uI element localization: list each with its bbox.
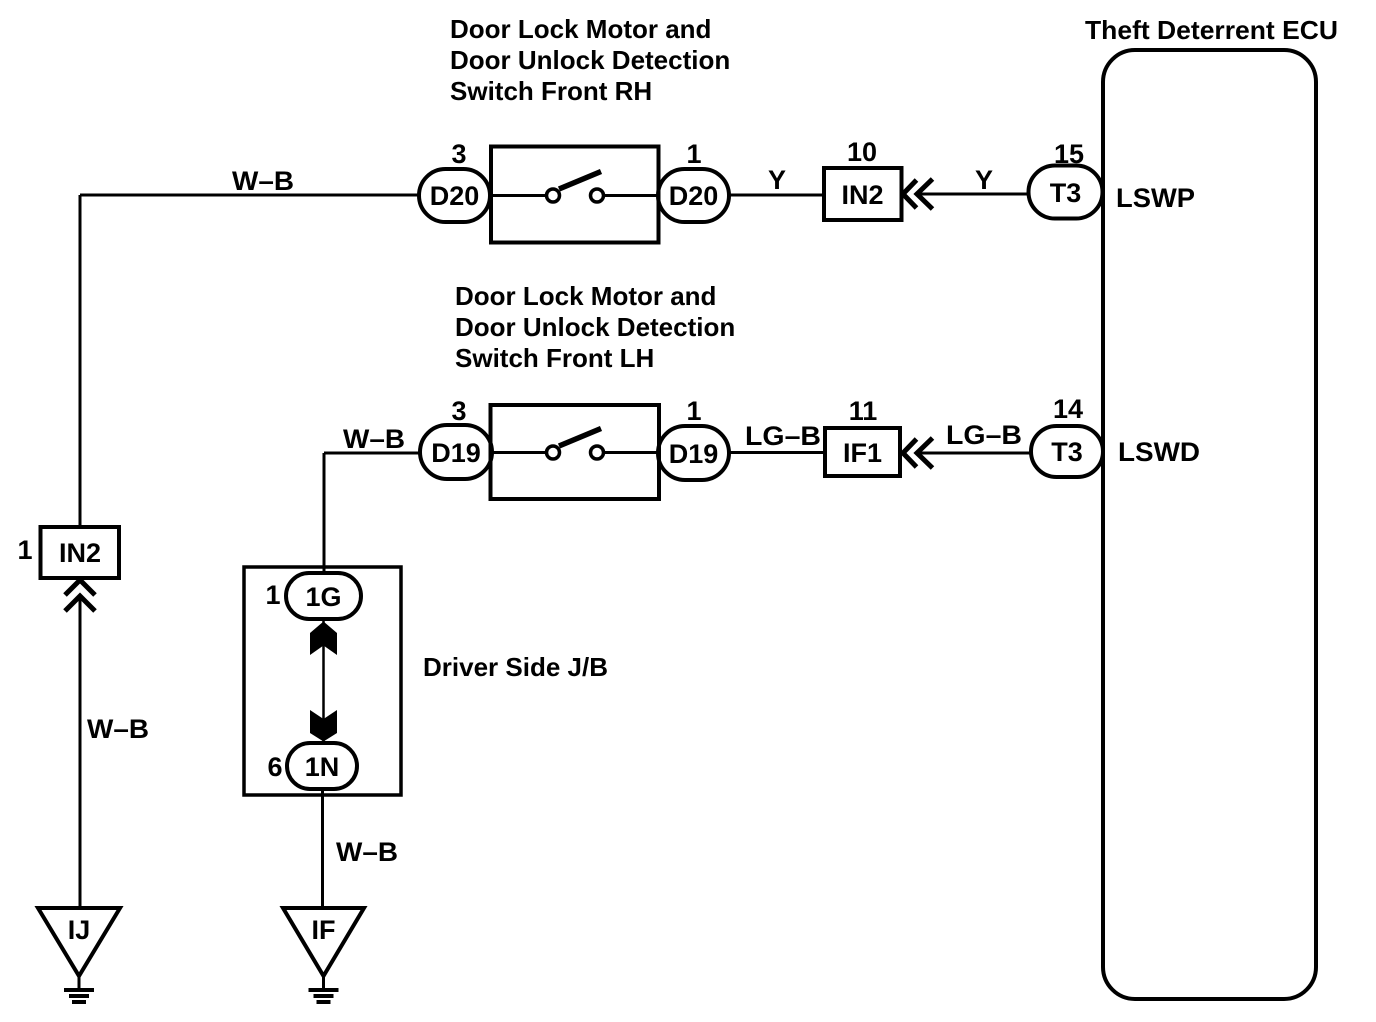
- wire W-B to IF ground: [321, 789, 324, 908]
- switch S1 contacts: [491, 172, 659, 203]
- label LSWD: [1118, 437, 1200, 467]
- svg-text:1: 1: [686, 139, 701, 169]
- svg-text:1: 1: [265, 580, 280, 610]
- label W-B row 2: [343, 424, 405, 454]
- connector D19 pin 3: [420, 425, 492, 479]
- svg-text:T3: T3: [1050, 178, 1082, 208]
- svg-text:3: 3: [451, 396, 466, 426]
- svg-text:IF1: IF1: [843, 438, 882, 468]
- svg-text:IJ: IJ: [68, 915, 91, 945]
- svg-text:IF: IF: [312, 915, 336, 945]
- wire Y from D20 to IN2: [729, 194, 824, 197]
- ground symbol under IF: [309, 976, 339, 1002]
- arrow chevrons into IF1 pin 11: [903, 438, 933, 468]
- pin 1 label (IN2 left): [17, 535, 32, 565]
- pin 3 label (D20 left): [451, 139, 466, 169]
- wire W-B row 2: [324, 453, 420, 573]
- svg-text:Door Lock Motor and: Door Lock Motor and: [455, 281, 716, 311]
- svg-text:1N: 1N: [305, 752, 340, 782]
- svg-text:D20: D20: [669, 181, 719, 211]
- switch S1 box Front RH: [491, 147, 659, 243]
- connector D20 pin 3: [419, 169, 490, 222]
- svg-text:Driver Side J/B: Driver Side J/B: [423, 652, 608, 682]
- Driver Side J/B box: [244, 567, 401, 795]
- pin 6 label (1N): [267, 752, 282, 782]
- svg-text:W–B: W–B: [343, 424, 405, 454]
- junction connector IN2 pin 10: [824, 168, 902, 220]
- svg-text:1: 1: [686, 396, 701, 426]
- svg-text:IN2: IN2: [59, 538, 101, 568]
- svg-text:W–B: W–B: [336, 837, 398, 867]
- connector 1G pin 1: [286, 573, 361, 619]
- label Driver Side J/B: [423, 652, 608, 682]
- pin 15 label: [1054, 139, 1084, 169]
- svg-text:10: 10: [847, 137, 877, 167]
- label Theft Deterrent ECU: [1085, 15, 1338, 45]
- svg-text:Y: Y: [975, 165, 993, 195]
- connector T3 pin 14: [1031, 426, 1103, 477]
- pin 11 label: [849, 396, 878, 426]
- wire LG-B from D19 to IF1: [729, 451, 825, 454]
- label W-B J/B branch: [336, 837, 398, 867]
- ground IF triangle: [283, 908, 364, 976]
- svg-text:Switch Front LH: Switch Front LH: [455, 343, 654, 373]
- ground symbol under IJ: [64, 976, 94, 1002]
- label LSWP: [1116, 183, 1195, 213]
- svg-text:3: 3: [451, 139, 466, 169]
- label Door Lock Motor and Door Unlock Detection Switch Front LH: [455, 281, 735, 373]
- label LG-B right: [946, 420, 1022, 450]
- junction connector IN2 pin 1 left: [41, 527, 120, 578]
- svg-text:Y: Y: [768, 165, 786, 195]
- svg-text:6: 6: [267, 752, 282, 782]
- svg-text:Switch Front RH: Switch Front RH: [450, 76, 652, 106]
- switch S2 contacts: [491, 429, 660, 460]
- label Door Lock Motor and Door Unlock Detection Switch Front RH: [450, 14, 730, 106]
- ground IJ triangle: [38, 908, 120, 976]
- svg-text:T3: T3: [1051, 437, 1083, 467]
- svg-text:IN2: IN2: [841, 180, 883, 210]
- svg-text:D20: D20: [430, 181, 480, 211]
- svg-text:Door Unlock Detection: Door Unlock Detection: [450, 45, 730, 75]
- connector T3 pin 15: [1029, 166, 1103, 219]
- connector D19 pin 1: [658, 426, 729, 480]
- connector D20 pin 1: [658, 169, 729, 222]
- label W-B row 1: [232, 166, 294, 196]
- svg-text:LSWP: LSWP: [1116, 183, 1195, 213]
- wire W-B row 1: [80, 195, 419, 527]
- svg-text:LG–B: LG–B: [946, 420, 1022, 450]
- svg-text:W–B: W–B: [87, 714, 149, 744]
- pin 3 label (D19 left): [451, 396, 466, 426]
- svg-text:D19: D19: [669, 439, 719, 469]
- switch S2 box Front LH: [491, 405, 660, 499]
- svg-text:Theft Deterrent ECU: Theft Deterrent ECU: [1085, 15, 1338, 45]
- arrow chevrons into IN2 pin 1: [65, 580, 95, 611]
- junction connector IF1 pin 11: [825, 428, 900, 476]
- svg-text:D19: D19: [431, 438, 481, 468]
- svg-text:LG–B: LG–B: [745, 421, 821, 451]
- label Y right: [975, 165, 993, 195]
- svg-text:1G: 1G: [305, 582, 341, 612]
- svg-text:15: 15: [1054, 139, 1084, 169]
- label LG-B left: [745, 421, 821, 451]
- arrow up inside J/B: [310, 622, 337, 656]
- svg-text:W–B: W–B: [232, 166, 294, 196]
- svg-text:Door Lock Motor and: Door Lock Motor and: [450, 14, 711, 44]
- Theft Deterrent ECU box U1: [1103, 50, 1316, 999]
- connector 1N pin 6: [287, 743, 357, 789]
- pin 14 label: [1053, 394, 1083, 424]
- pin 10 label: [847, 137, 877, 167]
- label Y left: [768, 165, 786, 195]
- wire W-B to IJ ground: [79, 596, 82, 908]
- svg-text:14: 14: [1053, 394, 1083, 424]
- wire Y from T3 to IN2: [917, 193, 1030, 196]
- svg-text:11: 11: [849, 396, 878, 426]
- svg-text:LSWD: LSWD: [1118, 437, 1200, 467]
- arrow down inside J/B: [310, 710, 337, 742]
- svg-text:Door Unlock Detection: Door Unlock Detection: [455, 312, 735, 342]
- wire LG-B from T3 to IF1: [917, 452, 1033, 455]
- wire inside J/B: [322, 619, 325, 743]
- arrow chevrons into IN2 pin 10: [903, 179, 933, 209]
- label W-B left branch: [87, 714, 149, 744]
- pin 1 label (D19 right): [686, 396, 701, 426]
- pin 1 label (1G): [265, 580, 280, 610]
- pin 1 label (D20 right): [686, 139, 701, 169]
- svg-text:1: 1: [17, 535, 32, 565]
